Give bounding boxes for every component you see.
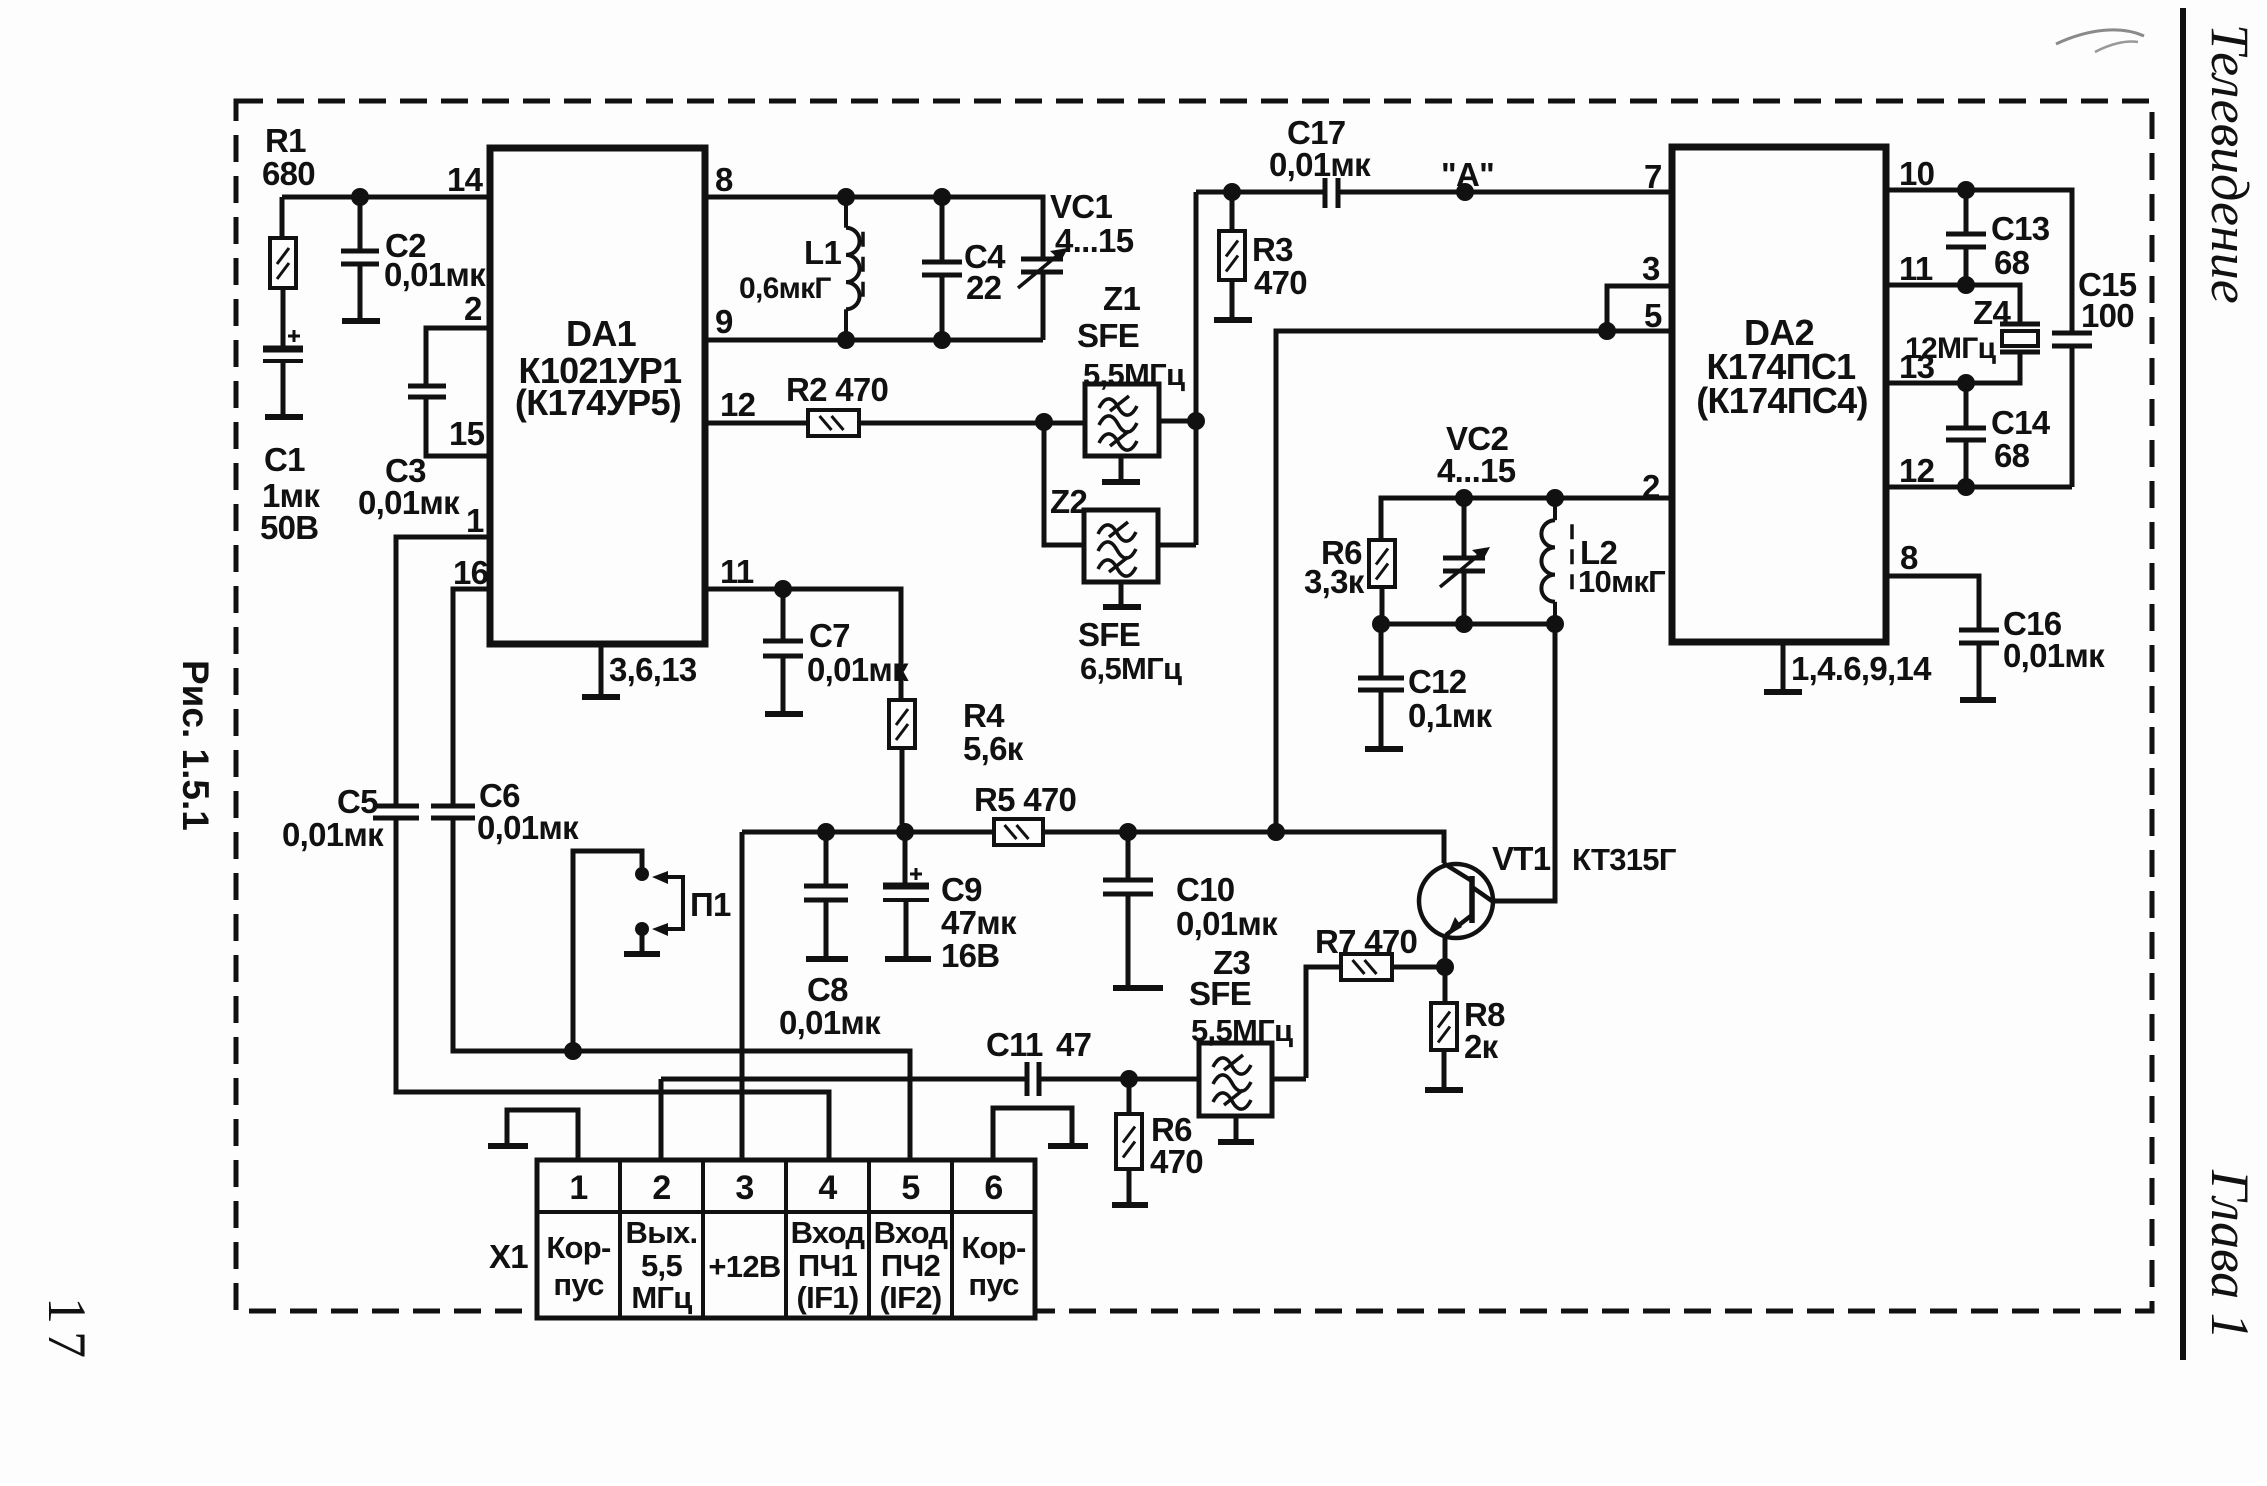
svg-text:100: 100 — [2081, 297, 2134, 334]
svg-text:0,01мк: 0,01мк — [779, 1004, 881, 1041]
svg-text:17: 17 — [37, 1297, 97, 1365]
svg-text:Z1: Z1 — [1103, 280, 1140, 317]
svg-text:6: 6 — [984, 1169, 1002, 1207]
svg-text:C8: C8 — [807, 971, 848, 1008]
svg-text:2: 2 — [1642, 468, 1660, 505]
svg-text:ПЧ2: ПЧ2 — [881, 1248, 940, 1283]
svg-text:пус: пус — [553, 1267, 604, 1302]
svg-text:R5 470: R5 470 — [974, 781, 1076, 818]
svg-text:+12В: +12В — [708, 1249, 780, 1284]
svg-text:пус: пус — [968, 1267, 1019, 1302]
svg-text:5,6к: 5,6к — [963, 730, 1024, 767]
svg-text:47мк: 47мк — [941, 904, 1017, 941]
svg-text:МГц: МГц — [631, 1280, 692, 1315]
svg-text:4...15: 4...15 — [1437, 452, 1516, 489]
svg-text:6,5МГц: 6,5МГц — [1080, 651, 1182, 686]
svg-text:68: 68 — [1994, 437, 2030, 474]
svg-text:C1: C1 — [264, 441, 305, 478]
svg-text:Глава 1: Глава 1 — [2200, 1169, 2260, 1340]
svg-text:П1: П1 — [690, 886, 731, 923]
svg-text:Кор-: Кор- — [546, 1230, 611, 1265]
svg-text:680: 680 — [262, 155, 315, 192]
svg-text:C14: C14 — [1991, 404, 2051, 441]
svg-text:470: 470 — [1254, 264, 1307, 301]
svg-text:0,01мк: 0,01мк — [358, 484, 460, 521]
svg-text:Телевидение: Телевидение — [2200, 24, 2260, 304]
svg-text:11: 11 — [720, 553, 754, 590]
svg-text:R4: R4 — [963, 697, 1005, 734]
svg-text:(К174УР5): (К174УР5) — [515, 382, 681, 423]
svg-text:22: 22 — [966, 269, 1002, 306]
svg-text:0,1мк: 0,1мк — [1408, 697, 1492, 734]
svg-text:C10: C10 — [1176, 871, 1234, 908]
svg-text:SFE: SFE — [1189, 975, 1251, 1012]
svg-text:SFE: SFE — [1078, 616, 1140, 653]
svg-text:16: 16 — [453, 554, 489, 591]
svg-text:C13: C13 — [1991, 210, 2050, 247]
svg-text:10: 10 — [1899, 155, 1934, 192]
svg-text:3: 3 — [735, 1169, 753, 1207]
svg-text:10мкГ: 10мкГ — [1578, 564, 1665, 599]
svg-text:R1: R1 — [265, 122, 306, 159]
svg-text:C7: C7 — [809, 617, 850, 654]
svg-text:470: 470 — [1150, 1143, 1203, 1180]
svg-text:3,6,13: 3,6,13 — [609, 651, 697, 688]
svg-text:5: 5 — [1644, 297, 1662, 334]
svg-text:8: 8 — [715, 161, 733, 198]
svg-text:SFE: SFE — [1077, 317, 1139, 354]
svg-text:1,4.6,9,14: 1,4.6,9,14 — [1791, 650, 1932, 687]
svg-text:Вых.: Вых. — [626, 1215, 698, 1250]
svg-text:5: 5 — [901, 1169, 919, 1207]
svg-text:R2 470: R2 470 — [786, 371, 888, 408]
svg-text:0,01мк: 0,01мк — [1176, 905, 1278, 942]
svg-text:0,6мкГ: 0,6мкГ — [739, 272, 831, 305]
svg-text:15: 15 — [449, 415, 485, 452]
svg-text:Z4: Z4 — [1973, 294, 2011, 331]
svg-text:8: 8 — [1900, 539, 1918, 576]
svg-text:DA1: DA1 — [566, 313, 637, 354]
svg-text:(IF1): (IF1) — [797, 1280, 859, 1315]
svg-text:VC1: VC1 — [1050, 188, 1112, 225]
svg-text:Рис. 1.5.1: Рис. 1.5.1 — [175, 660, 216, 831]
svg-text:ПЧ1: ПЧ1 — [798, 1248, 858, 1283]
svg-text:1: 1 — [569, 1169, 587, 1207]
svg-text:12: 12 — [1899, 452, 1935, 489]
svg-text:0,01мк: 0,01мк — [2003, 637, 2105, 674]
svg-text:0,01мк: 0,01мк — [477, 809, 579, 846]
svg-text:0,01мк: 0,01мк — [807, 651, 909, 688]
svg-text:0,01мк: 0,01мк — [282, 816, 384, 853]
svg-text:C9: C9 — [941, 871, 982, 908]
svg-text:VT1: VT1 — [1492, 840, 1551, 877]
svg-text:2: 2 — [464, 290, 482, 327]
svg-text:47: 47 — [1056, 1026, 1091, 1063]
svg-text:L1: L1 — [804, 234, 841, 271]
svg-text:68: 68 — [1994, 244, 2030, 281]
svg-text:(К174ПС4): (К174ПС4) — [1696, 380, 1868, 421]
svg-text:4...15: 4...15 — [1055, 222, 1134, 259]
svg-text:"А": "А" — [1441, 156, 1494, 193]
svg-text:7: 7 — [1644, 158, 1662, 195]
svg-text:R7 470: R7 470 — [1315, 923, 1417, 960]
svg-text:12МГц: 12МГц — [1905, 332, 1997, 365]
svg-text:КТ315Г: КТ315Г — [1572, 842, 1676, 877]
svg-text:Вход: Вход — [874, 1215, 949, 1250]
svg-text:12: 12 — [720, 386, 756, 423]
svg-text:Кор-: Кор- — [961, 1230, 1026, 1265]
svg-text:0,01мк: 0,01мк — [384, 256, 486, 293]
svg-text:2: 2 — [652, 1169, 670, 1207]
svg-text:(IF2): (IF2) — [880, 1280, 942, 1315]
svg-text:5,5МГц: 5,5МГц — [1083, 357, 1185, 392]
svg-text:3,3к: 3,3к — [1304, 563, 1365, 600]
svg-text:9: 9 — [715, 303, 733, 340]
svg-text:4: 4 — [818, 1169, 837, 1207]
svg-text:5,5: 5,5 — [641, 1248, 682, 1283]
svg-text:11: 11 — [1899, 250, 1933, 287]
svg-text:Z2: Z2 — [1050, 483, 1087, 520]
svg-text:C11: C11 — [986, 1026, 1043, 1063]
svg-text:Вход: Вход — [791, 1215, 866, 1250]
svg-text:1: 1 — [466, 502, 484, 539]
svg-text:X1: X1 — [489, 1238, 528, 1275]
svg-text:C5: C5 — [337, 783, 378, 820]
svg-text:16В: 16В — [941, 937, 999, 974]
svg-text:R3: R3 — [1252, 231, 1293, 268]
svg-text:3: 3 — [1642, 250, 1660, 287]
svg-text:C12: C12 — [1408, 663, 1467, 700]
svg-text:14: 14 — [447, 161, 484, 198]
svg-text:50В: 50В — [260, 509, 318, 546]
svg-text:0,01мк: 0,01мк — [1269, 146, 1371, 183]
svg-text:2к: 2к — [1464, 1028, 1499, 1065]
svg-text:5,5МГц: 5,5МГц — [1191, 1013, 1293, 1048]
